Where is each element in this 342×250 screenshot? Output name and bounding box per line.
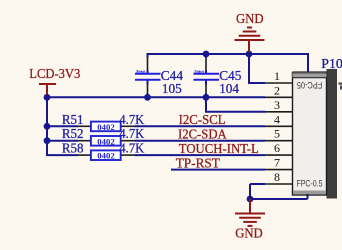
svg-text:I2C-SDA: I2C-SDA: [178, 127, 227, 142]
svg-text:6: 6: [274, 141, 280, 155]
svg-text:FPC-05: FPC-05: [296, 80, 322, 90]
svg-text:4.7K: 4.7K: [119, 126, 144, 141]
svg-text:R51: R51: [62, 112, 84, 127]
svg-text:8: 8: [274, 170, 280, 184]
svg-text:TP-RST: TP-RST: [176, 155, 221, 170]
svg-text:GND: GND: [235, 226, 263, 241]
svg-text:1: 1: [274, 69, 280, 83]
svg-text:105: 105: [162, 81, 182, 96]
svg-text:0402: 0402: [97, 122, 115, 132]
svg-text:0402: 0402: [97, 151, 115, 161]
svg-text:P10: P10: [321, 57, 342, 72]
svg-text:104: 104: [219, 81, 239, 96]
svg-text:TOUCH-INT-L: TOUCH-INT-L: [179, 141, 259, 156]
svg-text:4.7K: 4.7K: [119, 141, 144, 156]
svg-text:0402: 0402: [194, 68, 204, 74]
svg-text:5: 5: [274, 127, 280, 141]
svg-text:I2C-SCL: I2C-SCL: [179, 112, 226, 127]
svg-text:R52: R52: [62, 126, 84, 141]
svg-text:FPC-0.5: FPC-0.5: [296, 179, 323, 189]
svg-text:4: 4: [274, 112, 280, 126]
svg-text:3: 3: [274, 98, 280, 112]
svg-text:GND: GND: [236, 11, 264, 26]
svg-text:0402: 0402: [136, 68, 146, 74]
svg-text:0402: 0402: [97, 136, 115, 146]
svg-text:2: 2: [274, 83, 280, 97]
svg-text:4.7K: 4.7K: [119, 112, 144, 127]
svg-text:LCD-3V3: LCD-3V3: [29, 66, 80, 81]
svg-text:R58: R58: [62, 141, 84, 156]
svg-text:7: 7: [274, 156, 280, 170]
